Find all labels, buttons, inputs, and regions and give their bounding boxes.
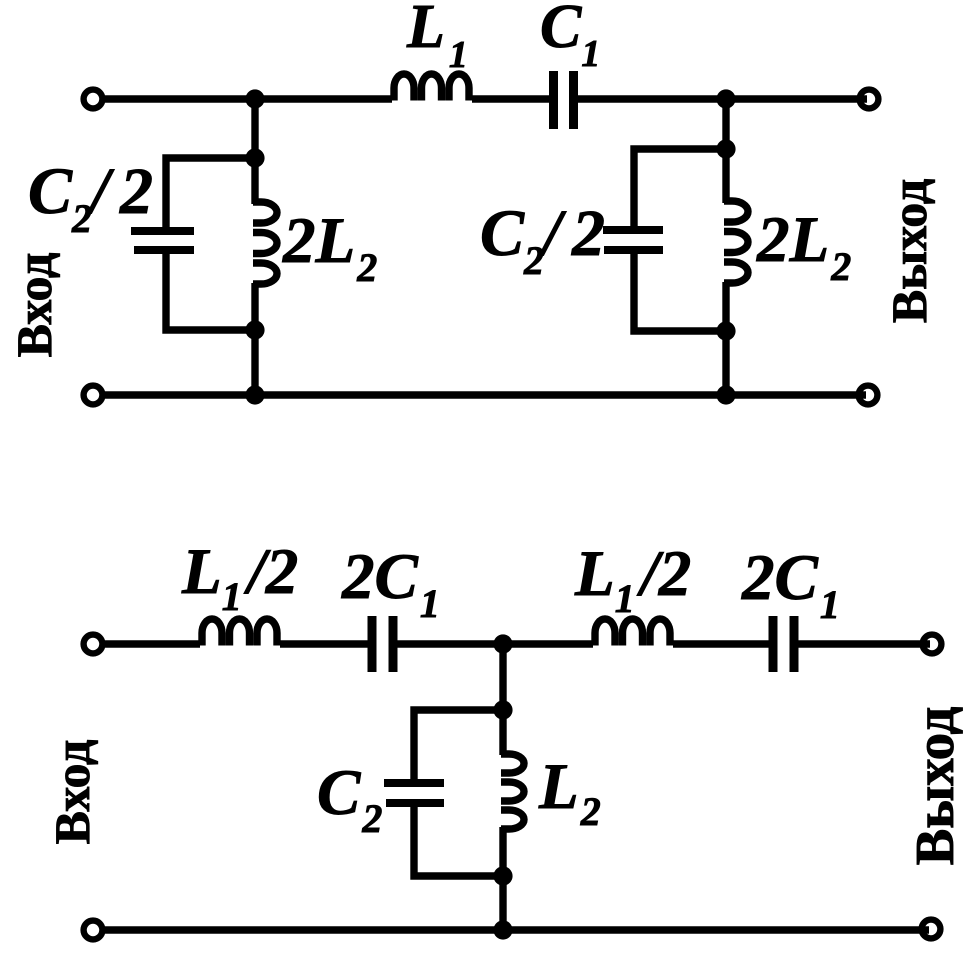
inductor L1/2 second [595,619,670,646]
wire top rail left [105,95,392,102]
node left shunt top [245,148,264,167]
inductor 2L2 left [253,202,277,284]
wire left cap branch bottom [166,254,255,330]
terminal output bottom diagram right [923,635,942,654]
svg-text:Вход: Вход [6,253,62,358]
wire center shunt vertical lower [499,827,506,930]
wire left cap branch top [166,158,255,227]
svg-text:Выход: Выход [881,179,937,323]
wire left shunt vertical lower [251,283,258,395]
capacitor C1 [549,71,558,129]
terminal output bottom-right [859,386,878,405]
inductor 2L2 right [724,201,748,283]
terminal bottom-left [84,921,103,940]
wire [105,640,200,647]
wire [798,640,930,647]
node center shunt bottom [493,866,512,885]
node top-left rail [245,89,264,108]
wire [472,95,550,102]
node bottom rail left [245,385,264,404]
inductor L1 [394,74,469,101]
node center rail bottom diagram [493,634,512,653]
wire right cap branch bottom [634,254,726,331]
node bottom rail right [716,385,735,404]
svg-text:Выход: Выход [904,706,965,865]
node center shunt top [493,700,512,719]
wire center cap branch bottom [414,807,503,876]
wire [280,640,368,647]
capacitor C2 [384,779,444,787]
node right shunt bottom [716,321,735,340]
wire right shunt vertical lower [722,282,729,395]
wire [578,95,867,102]
capacitor C2/2 right [603,226,663,234]
wire right shunt vertical upper [722,99,729,203]
wire right cap branch top [634,149,726,226]
inductor L2 [501,754,524,829]
svg-text:Вход: Вход [44,740,100,845]
terminal input bottom diagram top-left [84,635,103,654]
wire [397,640,593,647]
wire center cap branch top [414,710,503,779]
node right shunt top [716,139,735,158]
terminal bottom-right [922,920,941,939]
capacitor 2C1 first [368,616,377,672]
inductor L1/2 first [202,619,277,646]
terminal output top-right [860,90,879,109]
capacitor 2C1 second [769,616,778,672]
wire bottom rail [105,391,866,398]
capacitor C2/2 left [131,227,194,235]
wire left shunt vertical upper [251,99,258,204]
node left shunt bottom [245,320,264,339]
terminal input top-left [84,90,103,109]
wire [673,640,770,647]
wire bottom rail of bottom diagram [105,926,929,933]
node bottom rail bottom diagram [493,920,512,939]
terminal input bottom-left [84,386,103,405]
node top-right rail [716,89,735,108]
wire center shunt vertical upper [499,644,506,755]
